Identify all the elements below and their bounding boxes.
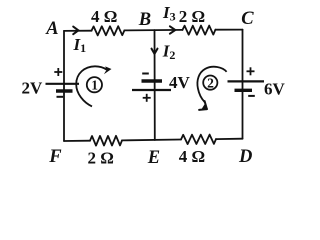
wire bottom F-E left segment: [64, 140, 90, 142]
wire top B segment: [124, 29, 182, 32]
svg-text:2 V: 2 V: [22, 79, 43, 98]
battery 6V right: short negative plate: [235, 89, 253, 92]
battery 6V minus sign: [248, 95, 255, 97]
svg-text:2 Ω: 2 Ω: [88, 149, 114, 168]
loop 1 circle symbol: [87, 77, 102, 92]
wire top B-C right segment: [215, 29, 242, 31]
svg-text:A: A: [45, 19, 58, 39]
battery 2V plus sign: [54, 68, 62, 76]
resistor 2ohm F-E zigzag: [90, 136, 122, 146]
svg-text:4 Ω: 4 Ω: [179, 147, 205, 166]
current arrow I2 on wire B-E: [152, 49, 158, 54]
svg-text:C: C: [241, 9, 254, 29]
loop 1 direction arc: [76, 66, 106, 106]
svg-text:2: 2: [207, 75, 214, 90]
battery 4V plus sign: [143, 94, 151, 102]
svg-text:4 V: 4 V: [169, 73, 190, 92]
battery 4V minus sign: [142, 73, 149, 75]
battery 2V minus sign: [57, 96, 64, 98]
wire left A down to F through battery: [63, 31, 65, 141]
wire bottom E junction segment: [122, 139, 181, 142]
battery 2V left: long positive plate: [46, 83, 80, 85]
svg-text:6 V: 6 V: [264, 80, 285, 99]
loop 2 direction arc: [197, 67, 226, 102]
svg-text:B: B: [138, 10, 151, 30]
wire top A-B left segment: [64, 30, 92, 32]
svg-text:4 Ω: 4 Ω: [91, 7, 117, 26]
battery 6V right: long positive plate: [228, 80, 265, 82]
current arrow I3 on wire B-C: [170, 26, 175, 33]
svg-text:1: 1: [91, 78, 98, 93]
svg-text:2 Ω: 2 Ω: [179, 7, 205, 26]
battery 4V middle: long positive plate: [132, 89, 171, 91]
wire bottom E-D right segment: [216, 138, 243, 140]
current arrow I1 on wire A-B: [73, 27, 78, 35]
svg-text:E: E: [147, 148, 160, 168]
resistor 2ohm B-C zigzag: [183, 26, 216, 35]
resistor 4ohm A-B zigzag: [92, 26, 125, 35]
loop 2 arc arrowhead: [199, 101, 207, 110]
wire middle B down to E through battery: [154, 30, 156, 140]
svg-text:D: D: [238, 147, 252, 167]
wire right C down to D through battery: [242, 30, 244, 139]
battery 6V plus sign: [247, 67, 255, 75]
resistor 4ohm E-D zigzag: [181, 135, 216, 145]
battery 2V left: short negative plate: [56, 89, 73, 92]
svg-text:F: F: [48, 147, 62, 167]
loop 2 circle symbol: [203, 76, 217, 90]
battery 4V middle: short negative plate: [142, 79, 163, 82]
loop 1 arc arrowhead: [104, 66, 112, 74]
